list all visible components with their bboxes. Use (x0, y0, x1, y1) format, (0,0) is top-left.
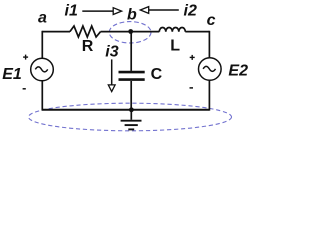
svg-text:E1: E1 (2, 66, 22, 83)
plus sign E2 (190, 55, 195, 60)
svg-text:E2: E2 (228, 63, 248, 80)
current i1 arrow (82, 10, 113, 12)
wire resistor to inductor through node b (101, 31, 160, 33)
wire right branch upper (208, 31, 210, 58)
wire node b to capacitor (130, 32, 132, 71)
wire capacitor to rail (130, 81, 132, 110)
source E2 (199, 58, 222, 81)
ellipse ground net highlight (29, 103, 232, 131)
resistor R (70, 26, 101, 37)
svg-text:C: C (151, 66, 163, 83)
svg-text:L: L (170, 38, 180, 55)
svg-text:i1: i1 (65, 2, 78, 19)
wire bottom rail (42, 109, 209, 111)
svg-text:i3: i3 (105, 43, 118, 60)
source E1 (31, 58, 54, 81)
wire left branch lower (41, 81, 43, 111)
svg-text:a: a (38, 10, 47, 27)
plus sign E1 (23, 55, 28, 60)
node junction dot bottom (129, 107, 134, 112)
minus sign E2 (190, 87, 194, 89)
wire left branch upper (41, 31, 43, 59)
wire right branch lower (208, 80, 210, 110)
inductor L (159, 28, 185, 32)
ellipse node b highlight (109, 22, 151, 43)
svg-text:b: b (127, 7, 137, 24)
svg-text:R: R (82, 38, 94, 55)
svg-text:c: c (207, 12, 216, 29)
svg-text:i2: i2 (184, 2, 197, 19)
node b junction dot (128, 29, 133, 34)
wire inductor to node c (185, 31, 209, 33)
current i2 arrow (147, 9, 179, 11)
current i3 arrow (111, 59, 113, 84)
minus sign E1 (23, 88, 26, 90)
ground (121, 110, 142, 130)
wire top left (node a to resistor) (42, 31, 70, 33)
capacitor C (119, 71, 145, 74)
